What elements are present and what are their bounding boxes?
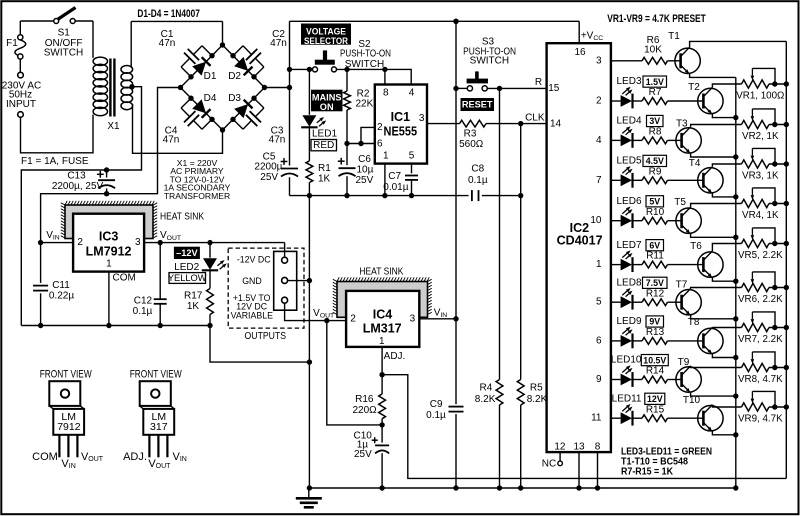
- wire LED9 to R13: [633, 340, 642, 342]
- svg-text:6: 6: [377, 138, 383, 149]
- label LED3: [616, 76, 641, 87]
- node T9 emitter: [733, 393, 738, 398]
- node T2 emitter: [733, 115, 738, 120]
- node bridge right: [262, 85, 267, 90]
- wire pin13 ground: [578, 452, 580, 488]
- svg-text:-12V DC: -12V DC: [237, 254, 271, 264]
- node R17 ground: [207, 323, 212, 328]
- wire 555 ground rail: [290, 195, 521, 197]
- label Vin LM7912: [61, 458, 75, 470]
- svg-text:D2: D2: [228, 71, 241, 82]
- svg-text:VR5, 2.2K: VR5, 2.2K: [738, 250, 783, 261]
- label LED6: [616, 196, 641, 207]
- wire T7 collector: [691, 288, 742, 289]
- node T5 emitter: [733, 235, 738, 240]
- wire T3 collector: [691, 125, 742, 127]
- svg-text:LED8: LED8: [616, 277, 641, 288]
- wire pin1 to LED7: [611, 264, 621, 266]
- svg-text:6: 6: [596, 335, 602, 346]
- label LED10: [611, 355, 642, 366]
- wire T7 emitter: [691, 315, 736, 318]
- svg-text:RESET: RESET: [462, 100, 493, 110]
- svg-text:5: 5: [409, 151, 415, 162]
- wire R3 to CLK: [486, 123, 547, 125]
- resistor R1: [306, 127, 313, 195]
- wire T2 emitter: [712, 114, 735, 117]
- label HEAT SINK IC3: [160, 210, 204, 222]
- label FRONT VIEW left: [40, 368, 92, 380]
- pin 3 label IC2: [596, 55, 602, 66]
- label COM: [113, 272, 136, 283]
- node T3 emitter: [733, 154, 738, 159]
- label R9: [649, 166, 662, 177]
- svg-text:8: 8: [595, 441, 601, 452]
- label NC: [542, 458, 556, 469]
- svg-text:SWITCH: SWITCH: [44, 48, 83, 59]
- svg-text:T3: T3: [676, 118, 688, 129]
- transistor Q5 T5: [676, 207, 701, 234]
- label VR6: [738, 294, 783, 305]
- svg-text:6V: 6V: [649, 240, 660, 250]
- node center tap: [129, 84, 134, 89]
- terminal GND: [282, 277, 288, 283]
- label LED9: [616, 316, 641, 327]
- label LED5: [616, 156, 641, 167]
- wire T5 emitter: [691, 234, 736, 237]
- pin 2 IC3: [77, 237, 83, 248]
- label VR5: [738, 250, 783, 261]
- resistor R2: [344, 69, 351, 143]
- label +1.5V TO 12V DC VARIABLE: [231, 293, 274, 321]
- node R4 ground: [497, 485, 502, 490]
- svg-text:IC3: IC3: [99, 230, 119, 244]
- regulator IC4 LM317 box: [346, 291, 419, 347]
- counter IC2 CD4017 box: [547, 43, 611, 452]
- pin 1 IC4: [379, 336, 385, 347]
- svg-text:7: 7: [596, 175, 602, 186]
- wire LED5 to R9: [633, 179, 642, 181]
- label R: [535, 77, 542, 88]
- label C8: [468, 163, 488, 186]
- label LED2: [174, 262, 199, 273]
- wire R6 to T1 base: [668, 60, 681, 62]
- node C6 ground: [344, 193, 349, 198]
- svg-text:3: 3: [135, 237, 141, 248]
- label LM 7912: [57, 411, 81, 433]
- svg-text:14: 14: [550, 119, 562, 130]
- label Vout LM7912: [81, 451, 104, 463]
- wire C8 riser: [520, 124, 522, 196]
- node C8 right: [518, 193, 523, 198]
- wire secondary top to bridge: [131, 21, 222, 45]
- svg-text:0.1µ: 0.1µ: [468, 175, 488, 186]
- svg-text:0.1µ: 0.1µ: [426, 410, 446, 421]
- wire +V vertical: [289, 21, 291, 195]
- svg-text:COM: COM: [113, 272, 136, 283]
- svg-text:R12: R12: [646, 288, 665, 299]
- transformer X1 core: [110, 59, 114, 117]
- pin 13: [573, 441, 585, 452]
- svg-text:R8: R8: [649, 127, 662, 138]
- wire IC3 ground rail: [21, 326, 309, 363]
- diode D4: [192, 99, 210, 117]
- wire R8 to T3 base: [668, 139, 682, 141]
- svg-text:3V: 3V: [649, 116, 660, 126]
- wire bridge arms: [181, 45, 265, 130]
- wire 555 pins 2-6 tie: [347, 127, 375, 143]
- label VR1-VR9 = 4.7K PRESET: [607, 13, 706, 25]
- transistor Q1 T1: [675, 47, 700, 73]
- wire GND to connector: [288, 280, 309, 282]
- label IC1 NE555: [384, 110, 418, 138]
- label T6: [690, 241, 702, 252]
- label IC2 CD4017: [557, 221, 603, 248]
- node IC4 Vin junction: [453, 316, 458, 321]
- svg-text:25V: 25V: [354, 449, 372, 460]
- svg-text:2: 2: [596, 96, 602, 107]
- wire center tap to 0V: [21, 87, 141, 326]
- LED LED10: [621, 365, 633, 387]
- svg-text:VR2, 1K: VR2, 1K: [742, 131, 779, 142]
- label R16 220: [353, 394, 378, 416]
- svg-text:LED9: LED9: [616, 316, 641, 327]
- node R2 top: [344, 67, 349, 72]
- wire S2 to 555 pins 8-4: [337, 69, 412, 84]
- node C7 ground: [409, 193, 414, 198]
- svg-text:LED10: LED10: [611, 355, 642, 366]
- svg-text:10K: 10K: [644, 44, 662, 55]
- wire S2 feed: [290, 68, 313, 70]
- svg-text:R9: R9: [649, 166, 662, 177]
- transistor Q4 T4: [698, 167, 723, 194]
- svg-text:COM: COM: [32, 451, 58, 463]
- terminal input L: [18, 72, 24, 78]
- capacitor C9: [449, 407, 464, 412]
- svg-text:R17: R17: [184, 291, 203, 302]
- wire Vout feedback: [327, 321, 382, 425]
- pin 10 label IC2: [590, 215, 602, 226]
- resistor R16: [379, 375, 386, 425]
- label ADJ: [384, 351, 406, 362]
- pin 11 label IC2: [591, 413, 602, 424]
- svg-text:4: 4: [596, 135, 602, 146]
- svg-text:T2: T2: [688, 82, 700, 93]
- wire +V distribution vertical: [455, 21, 457, 488]
- svg-text:NE555: NE555: [384, 124, 418, 138]
- svg-text:SWITCH: SWITCH: [345, 59, 384, 70]
- wire R10 to T5 base: [668, 220, 682, 222]
- node C13 bottom: [104, 191, 109, 196]
- capacitor C5: [281, 158, 298, 176]
- wire T4 emitter: [712, 194, 735, 197]
- svg-text:1: 1: [106, 258, 112, 269]
- svg-text:8: 8: [383, 87, 389, 98]
- wire T4 collector: [712, 164, 741, 167]
- wire COM ground: [108, 272, 110, 326]
- LED LED2: [202, 243, 227, 271]
- label voltage 12V: [645, 393, 665, 404]
- label IC4 LM317: [363, 307, 402, 335]
- svg-text:13: 13: [573, 441, 585, 452]
- resistor R4: [496, 88, 503, 488]
- label VR7: [738, 334, 783, 345]
- capacitor C12: [154, 243, 167, 326]
- svg-text:1K: 1K: [187, 301, 200, 312]
- svg-text:VR7, 2.2K: VR7, 2.2K: [738, 334, 783, 345]
- node 555 pin8 riser: [382, 67, 387, 72]
- wire IC4 ADJ: [381, 347, 383, 375]
- svg-text:R16: R16: [355, 394, 374, 405]
- label C7: [383, 171, 408, 193]
- resistor R8: [642, 137, 668, 144]
- LED LED11: [621, 404, 633, 426]
- label +Vcc: [581, 30, 603, 41]
- node bridge bottom: [220, 127, 225, 132]
- pin 1 label IC2: [596, 259, 602, 270]
- wire +Vcc top rail: [290, 20, 580, 22]
- label YELLOW box: [168, 273, 207, 284]
- terminal variable: [282, 297, 288, 303]
- svg-text:T4: T4: [689, 158, 701, 169]
- pin 14: [550, 119, 562, 130]
- node bridge top: [220, 42, 225, 47]
- label voltage 1.5V: [643, 76, 667, 87]
- wire R13 to T8 base: [668, 340, 704, 342]
- svg-text:1K: 1K: [318, 174, 331, 185]
- preset VR3: [742, 148, 790, 168]
- svg-text:VR8, 4.7K: VR8, 4.7K: [738, 374, 783, 385]
- label R13: [646, 327, 665, 338]
- wire 555 pin3 out: [427, 123, 460, 125]
- svg-text:25V: 25V: [356, 175, 374, 186]
- wire pin7 to LED5: [611, 179, 621, 181]
- label T4: [689, 158, 701, 169]
- svg-text:8.2K: 8.2K: [527, 394, 548, 405]
- svg-text:FRONT VIEW: FRONT VIEW: [130, 368, 182, 380]
- label LED11: [612, 393, 642, 404]
- node LED2 top: [207, 240, 212, 245]
- label X1: [107, 121, 120, 132]
- svg-text:X1: X1: [107, 121, 120, 132]
- transistor Q10 T10: [698, 405, 723, 432]
- pin 6: [377, 138, 383, 149]
- label D2: [228, 71, 241, 82]
- svg-text:5V: 5V: [649, 197, 660, 207]
- wire main ground rail: [309, 487, 736, 489]
- wire LED11 to R15: [633, 417, 642, 419]
- connector outputs dashed box: [228, 248, 304, 328]
- wire pin12 NC: [558, 452, 563, 466]
- svg-text:R10: R10: [646, 207, 665, 218]
- svg-text:D3: D3: [228, 93, 241, 104]
- svg-text:SWITCH: SWITCH: [470, 56, 509, 67]
- svg-text:0.1µ: 0.1µ: [133, 306, 153, 317]
- svg-text:R7: R7: [649, 87, 662, 98]
- label T10: [683, 395, 701, 406]
- label LED8: [616, 277, 641, 288]
- wire T6 collector: [712, 244, 741, 252]
- wire IC4 Vin: [419, 318, 456, 320]
- wire collector-VR bus: [785, 41, 787, 478]
- svg-text:47n: 47n: [270, 38, 287, 49]
- wire -12V to connector: [284, 243, 286, 257]
- svg-text:VR4, 1K: VR4, 1K: [742, 210, 779, 221]
- label X1 note: [164, 158, 231, 201]
- preset VR7: [742, 312, 790, 332]
- node C11 ground: [38, 323, 43, 328]
- svg-text:RED: RED: [313, 140, 334, 151]
- package LM317 front view: [140, 381, 175, 435]
- wire T2 collector: [712, 84, 741, 87]
- label IC3 LM7912: [86, 230, 132, 259]
- LED LED4: [621, 126, 633, 148]
- label VR3: [742, 170, 779, 181]
- svg-text:YELLOW: YELLOW: [168, 273, 207, 283]
- wire T1 collector: [690, 41, 787, 47]
- svg-text:1.5V: 1.5V: [646, 77, 664, 87]
- svg-text:12V: 12V: [647, 394, 663, 404]
- svg-text:ON: ON: [320, 102, 334, 112]
- wire R15 to T10 base: [668, 417, 704, 419]
- pin 15: [548, 83, 560, 94]
- svg-text:D1: D1: [204, 71, 217, 82]
- svg-text:GND: GND: [242, 276, 262, 286]
- resistor R3: [460, 120, 487, 127]
- svg-text:LED2: LED2: [174, 262, 199, 273]
- node C12 top: [158, 240, 163, 245]
- svg-text:R15: R15: [646, 404, 665, 415]
- label VR9: [738, 413, 783, 424]
- svg-text:LED5: LED5: [616, 156, 641, 167]
- svg-text:R5: R5: [530, 383, 543, 394]
- svg-text:22K: 22K: [356, 99, 374, 110]
- label D3: [228, 93, 241, 104]
- wire ADJ rail: [382, 375, 786, 479]
- capacitor C8: [472, 190, 479, 201]
- svg-text:10: 10: [590, 215, 602, 226]
- transformer X1 secondary winding: [121, 21, 133, 109]
- node 555 pin1 ground: [382, 193, 387, 198]
- wire T1 emitter: [690, 74, 736, 77]
- node S3 feed: [453, 86, 458, 91]
- wire LED7 to R11: [633, 264, 642, 266]
- label C5: [254, 152, 282, 184]
- wire T8 collector: [712, 326, 741, 328]
- label Vin IC3: [46, 230, 60, 241]
- resistor R17: [207, 270, 214, 325]
- label Vout IC4: [313, 308, 334, 319]
- preset VR4: [742, 188, 790, 208]
- transistor Q7 T7: [676, 289, 701, 316]
- svg-text:T8: T8: [688, 317, 700, 328]
- capacitor C2: [230, 46, 264, 80]
- preset VR6: [742, 272, 790, 292]
- label Vin LM317: [173, 451, 187, 463]
- svg-text:47n: 47n: [159, 38, 176, 49]
- label R5 8.2K: [527, 383, 548, 405]
- svg-text:LED3: LED3: [616, 76, 641, 87]
- node pin8 ground: [595, 485, 600, 490]
- node C13 top: [104, 167, 109, 172]
- op-amp U1 timer IC1 NE555 box: [375, 85, 427, 164]
- transformer X1 primary winding: [93, 21, 108, 116]
- wire pin5 to LED8: [611, 301, 621, 303]
- label C6: [356, 154, 374, 186]
- capacitor C11: [33, 243, 48, 326]
- label CLK: [525, 113, 545, 124]
- resistor R10: [642, 217, 668, 224]
- label S2 PUSH-TO-ON SWITCH: [340, 39, 391, 70]
- svg-text:F1 = 1A, FUSE: F1 = 1A, FUSE: [21, 156, 89, 167]
- transistor Q6 T6: [698, 251, 723, 278]
- label Vin IC4: [434, 307, 448, 318]
- wire R11 to T6 base: [668, 264, 704, 266]
- svg-text:R7-R15 = 1K: R7-R15 = 1K: [621, 466, 673, 478]
- label voltage 7.5V: [643, 277, 668, 288]
- wire input N to primary bottom: [21, 115, 94, 153]
- wire pin8 ground: [597, 452, 599, 488]
- wire S3 to pin15 R: [487, 87, 546, 89]
- resistor R14: [642, 376, 668, 383]
- transistor Q8 T8: [698, 327, 723, 354]
- badge MAINS ON: [312, 90, 343, 112]
- svg-text:2: 2: [77, 237, 83, 248]
- label voltage 9V: [646, 316, 664, 327]
- resistor R11: [642, 261, 668, 268]
- node pin13 ground: [576, 485, 581, 490]
- svg-text:R14: R14: [646, 366, 665, 377]
- node pin2 jog: [358, 141, 363, 146]
- svg-text:T10: T10: [683, 395, 701, 406]
- resistor R12: [642, 299, 668, 306]
- wire pin3 to R6: [611, 60, 642, 62]
- ground symbol: [296, 488, 322, 507]
- wire T10 emitter: [712, 431, 735, 434]
- LED LED7: [621, 250, 633, 272]
- svg-text:ADJ.: ADJ.: [384, 351, 406, 362]
- label T3: [676, 118, 688, 129]
- pin 3: [419, 113, 425, 124]
- svg-text:CD4017: CD4017: [557, 234, 603, 248]
- label voltage 4.5V: [643, 155, 667, 166]
- wire T9 emitter: [691, 393, 736, 396]
- capacitor C7: [405, 164, 418, 196]
- capacitor C13: [97, 170, 115, 194]
- label GND: [242, 276, 262, 286]
- node +V corner: [287, 85, 292, 90]
- fuse F1: [15, 21, 26, 72]
- node R4 top: [497, 86, 502, 91]
- label COM: [32, 451, 58, 463]
- node C9 ground: [453, 485, 458, 490]
- label T9: [678, 357, 690, 368]
- label Vout LM317: [148, 458, 171, 470]
- wire R12 to T7 base: [668, 301, 682, 303]
- LED LED5: [621, 166, 633, 188]
- pin 5: [409, 151, 415, 162]
- svg-text:C7: C7: [388, 171, 401, 182]
- label C3 47n: [269, 125, 286, 145]
- label R6 10K: [644, 35, 662, 56]
- label T8: [688, 317, 700, 328]
- terminal input N: [18, 112, 24, 118]
- label LM 317: [150, 411, 168, 433]
- node +V rail tap: [453, 19, 458, 24]
- svg-text:D1-D4 = 1N4007: D1-D4 = 1N4007: [137, 8, 200, 20]
- pin 2 label IC2: [596, 96, 602, 107]
- label -12V DC: [237, 254, 271, 264]
- pin 3 IC4: [410, 314, 416, 325]
